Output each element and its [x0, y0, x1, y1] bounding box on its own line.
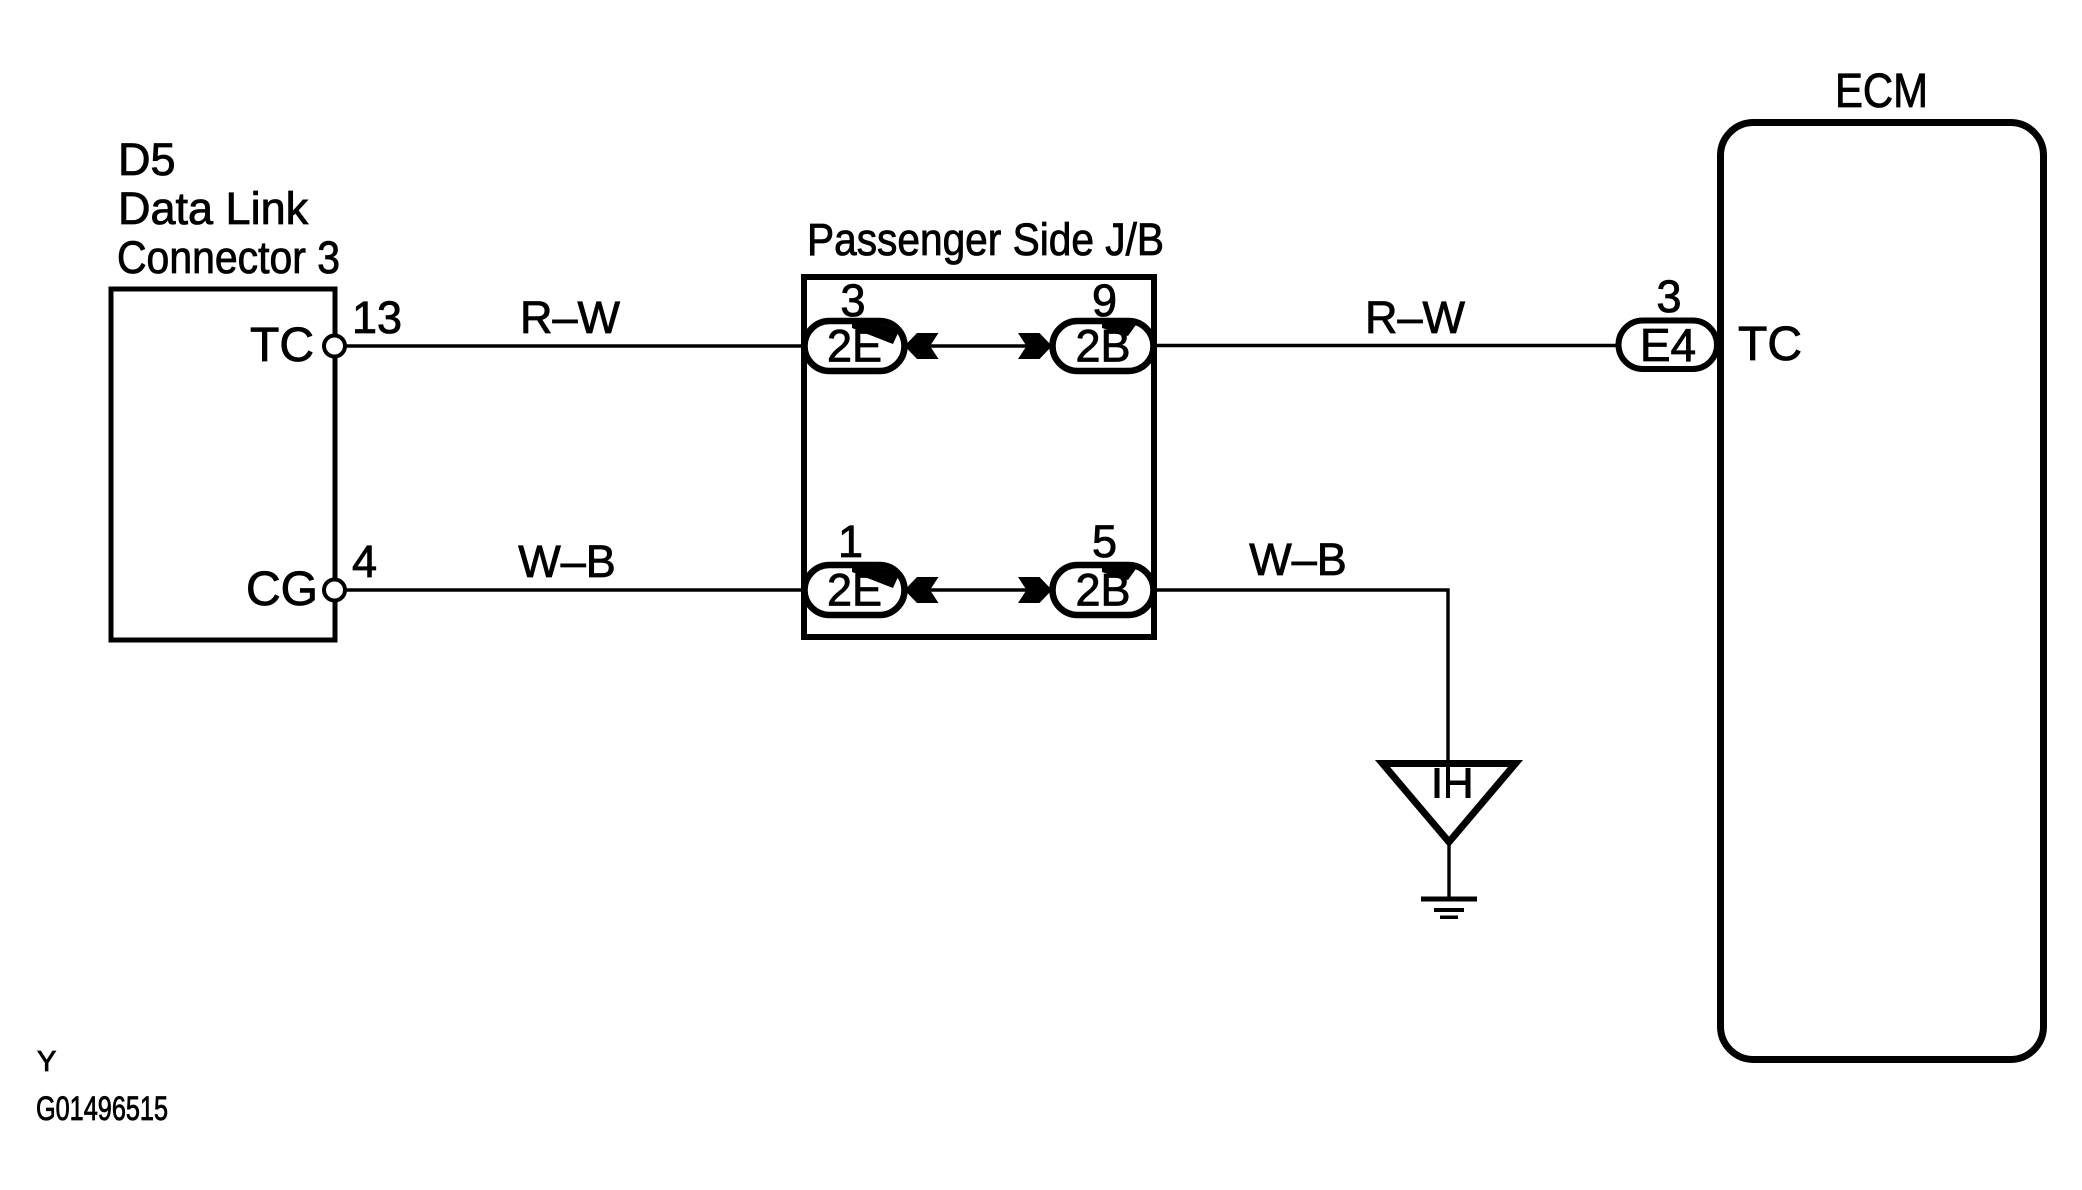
svg-text:13: 13	[352, 292, 402, 343]
svg-text:W–B: W–B	[518, 536, 616, 587]
svg-text:5: 5	[1092, 516, 1117, 567]
wire between 2E and 2B (bottom)	[906, 588, 1050, 591]
svg-text:Y: Y	[37, 1046, 56, 1078]
svg-text:D5: D5	[118, 134, 176, 185]
connector oval 2E bottom	[805, 565, 905, 616]
connector D5 box	[111, 289, 335, 640]
svg-text:TC: TC	[1738, 318, 1802, 371]
svg-text:G01496515: G01496515	[36, 1090, 168, 1128]
ground symbol	[1421, 897, 1477, 920]
pin terminal circle CG	[324, 580, 345, 601]
arrow toward 2B (top)	[1018, 333, 1052, 359]
svg-text:R–W: R–W	[1365, 292, 1466, 343]
svg-text:Passenger Side J/B: Passenger Side J/B	[807, 214, 1164, 265]
svg-text:Connector 3: Connector 3	[117, 232, 340, 283]
svg-text:9: 9	[1092, 275, 1117, 326]
svg-text:2E: 2E	[827, 565, 882, 616]
svg-text:3: 3	[840, 275, 865, 326]
arrow toward 2E (top)	[905, 333, 939, 359]
svg-text:Data Link: Data Link	[118, 183, 309, 234]
wire between 2E and 2B (top)	[906, 344, 1050, 347]
junction block Passenger Side J/B box	[804, 277, 1154, 637]
connector oval 2E top	[805, 321, 905, 372]
arrow toward 2E (bottom)	[905, 577, 939, 603]
svg-text:2E: 2E	[827, 321, 882, 372]
svg-text:R–W: R–W	[520, 292, 621, 343]
wire TC pin13 to J/B (R-W, left segment)	[345, 344, 806, 347]
pin terminal circle TC	[324, 336, 345, 357]
svg-text:2B: 2B	[1075, 321, 1130, 372]
connector oval 2B bottom	[1053, 565, 1154, 616]
wire 2B to ground drop (W-B, right segment)	[1152, 590, 1448, 764]
ECM box	[1721, 123, 2044, 1060]
svg-text:1: 1	[838, 516, 863, 567]
wire CG pin4 to J/B (W-B, left segment)	[345, 588, 806, 591]
connector oval E4	[1619, 319, 1718, 371]
wire 2B to E4 (R-W, right segment)	[1152, 344, 1620, 347]
svg-text:ECM: ECM	[1835, 65, 1928, 118]
ground triangle IH	[1383, 764, 1516, 843]
arrow toward 2B (bottom)	[1018, 577, 1052, 603]
svg-text:W–B: W–B	[1249, 534, 1347, 585]
svg-text:TC: TC	[250, 319, 314, 372]
wire triangle apex to ground	[1447, 842, 1450, 898]
svg-text:2B: 2B	[1075, 565, 1130, 616]
svg-text:4: 4	[352, 536, 377, 587]
svg-text:3: 3	[1656, 271, 1681, 322]
svg-text:E4: E4	[1640, 319, 1696, 371]
svg-text:CG: CG	[246, 563, 318, 616]
connector oval 2B top	[1053, 321, 1154, 372]
